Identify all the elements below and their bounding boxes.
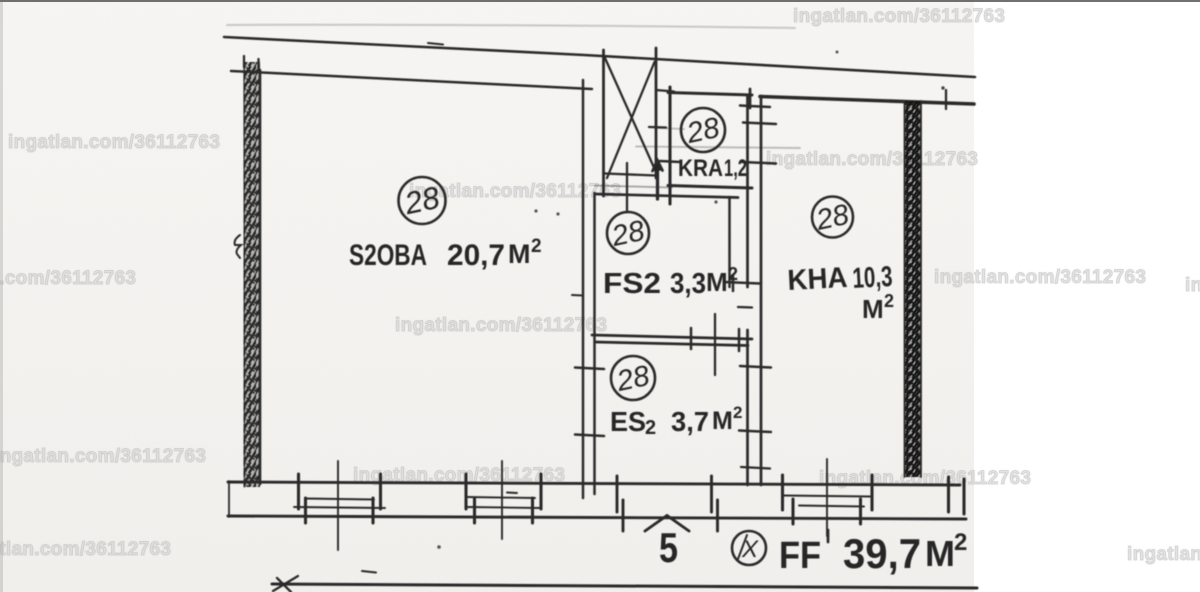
svg-text:2: 2: [954, 529, 967, 556]
svg-text:KRA: KRA: [678, 155, 723, 182]
dimension line through window 2: [501, 461, 503, 539]
svg-text:1,2: 1,2: [724, 155, 747, 182]
svg-text:39,7: 39,7: [843, 530, 921, 577]
KHA wall tick f: [739, 431, 771, 433]
top outline of building: [224, 37, 975, 77]
svg-text:5: 5: [659, 524, 678, 571]
window 1 inner line upper: [305, 499, 374, 500]
svg-text:M: M: [925, 533, 955, 574]
FS2 right edge inner line: [728, 197, 731, 287]
bottom wall left end tick: [228, 481, 230, 517]
svg-text:28: 28: [401, 180, 444, 222]
window 4 tick b: [962, 479, 965, 514]
svg-text:20,7: 20,7: [447, 239, 505, 272]
watermark left row 2: [8, 132, 220, 154]
svg-text:28: 28: [683, 112, 722, 150]
short dash above top outline: [428, 43, 443, 45]
watermark row 4 far right sliver: [1185, 275, 1200, 297]
svg-text:28: 28: [613, 360, 652, 398]
KRA left edge mid tick: [660, 161, 680, 162]
watermark row 6 center: [353, 465, 565, 487]
window 2 tick b: [473, 498, 476, 523]
window 1 tick d: [379, 474, 382, 509]
small hook mark on left wall: [235, 235, 241, 258]
window 3 tick c: [859, 499, 862, 524]
window 3 tick a: [781, 475, 784, 510]
stray dot g: [437, 545, 441, 549]
tick on hall wall upper: [575, 368, 604, 370]
watermark row 2 right: [766, 149, 978, 171]
window 2 tick d: [539, 474, 542, 509]
vertical tick below shaft: [626, 163, 628, 212]
svg-text:ES: ES: [610, 406, 646, 437]
window 1 tick b: [304, 498, 307, 523]
faint guide line through KRA: [636, 147, 800, 149]
window 4 tick a: [947, 477, 950, 512]
svg-text:KHA: KHA: [787, 262, 849, 297]
svg-text:M: M: [508, 239, 531, 269]
KHA wall tick e: [740, 366, 771, 368]
shaft X diagonal 2: [607, 62, 655, 178]
svg-text:28: 28: [608, 215, 647, 253]
tick crossing KHA top wall: [945, 90, 947, 109]
KHA left wall outer line lower: [746, 330, 749, 485]
svg-text:2: 2: [733, 403, 742, 422]
faint double of FS2 top: [595, 186, 672, 188]
KHA left wall outer line upper: [746, 96, 749, 287]
circled 28 KRA: [681, 108, 725, 152]
window 3 inner line lower: [799, 506, 864, 507]
dimension line through window 3: [826, 459, 828, 536]
entrance door tick d: [716, 500, 719, 531]
shaft box right vertical: [655, 48, 658, 178]
circled 28 ES2: [611, 356, 655, 400]
window 2 small dash: [507, 492, 517, 495]
cross mark second stroke: [277, 578, 291, 592]
tick crossing FS2/ES2 wall left: [690, 328, 693, 349]
shaft box left vertical: [602, 50, 605, 196]
watermark row 6 right: [819, 468, 1031, 490]
svg-text:28: 28: [813, 199, 852, 237]
svg-text:M: M: [706, 267, 728, 297]
tick on shaft right vertical: [649, 126, 666, 129]
KHA wall tick g: [741, 467, 770, 469]
dimension line through window 1: [337, 461, 339, 550]
window 2 inner line upper: [467, 497, 535, 498]
tick on hall wall lower: [575, 435, 604, 437]
KRA top-right corner tick: [749, 89, 752, 108]
shaft box bottom closing line: [605, 174, 656, 176]
tick crossing FS2/ES2 wall right: [738, 329, 741, 351]
apostrophe tick below window 3: [827, 530, 830, 542]
wall between SZOBA and hall (FS2/ES2): [582, 80, 585, 498]
KHA wall tick b: [743, 123, 776, 125]
entrance door tick b: [622, 500, 625, 531]
KHA top wall: [760, 97, 974, 105]
window 1 tick a: [297, 474, 300, 509]
stray dash f: [362, 571, 376, 573]
stray dot b: [556, 212, 559, 215]
watermark row 3 center: [409, 181, 621, 203]
wall between FS2 and ES2 lower line: [596, 342, 748, 346]
stray dot c: [836, 51, 839, 54]
watermark row 7 right clipped: [1127, 544, 1200, 566]
svg-text:2: 2: [531, 236, 542, 257]
watermark row 4 right: [934, 267, 1146, 289]
circled 28 SZOBA: [399, 177, 446, 224]
bottom wall outer line: [228, 482, 960, 485]
svg-text:2: 2: [645, 417, 656, 439]
door leaf line crossing FS2/ES2 wall: [714, 314, 716, 375]
faint pencil guide line top: [227, 25, 795, 28]
KHA wall tick c: [742, 162, 776, 164]
window 3 inner line upper: [784, 496, 870, 497]
hall inner box top edge (FS2): [595, 194, 738, 198]
circled X floor mark: [732, 531, 766, 565]
inner parallel wall line of hall: [593, 193, 596, 494]
top wall of SZOBA: [231, 71, 592, 89]
ground line at very bottom: [272, 584, 977, 588]
KRA box left edge: [668, 87, 671, 204]
window 2 tick c: [531, 498, 534, 523]
svg-text:10,3: 10,3: [852, 261, 894, 295]
KRA box bottom edge: [668, 186, 752, 189]
svg-text:X: X: [741, 536, 759, 563]
left wall hatched column: [244, 56, 261, 487]
entrance caret marker: [645, 516, 689, 532]
stair arrow shaft: [656, 161, 659, 199]
cross mark at left end of ground line: [273, 576, 298, 591]
svg-text:2: 2: [884, 291, 894, 311]
circled 28 FS2: [607, 212, 649, 254]
wall between FS2 and ES2 upper line: [592, 335, 752, 339]
right wall hatched column: [904, 101, 922, 477]
KRA box top edge: [668, 93, 752, 96]
svg-text:3,3: 3,3: [670, 268, 706, 300]
stray dot d: [941, 86, 944, 89]
circled 28 KHA: [812, 197, 853, 238]
watermark row 7 left clipped: [0, 539, 171, 561]
svg-text:FS2: FS2: [603, 268, 661, 300]
stray dot e: [714, 200, 717, 203]
watermark row 1: [793, 6, 1005, 28]
svg-text:FF: FF: [779, 535, 821, 577]
entrance door tick a: [616, 476, 619, 512]
svg-text:S2OBA: S2OBA: [349, 239, 427, 272]
dash connecting shaft to KRA: [656, 90, 674, 92]
watermark row 6 left: [0, 446, 206, 468]
svg-text:M: M: [862, 294, 884, 324]
small dash on szoba wall: [572, 294, 583, 297]
shaft X diagonal 1: [605, 58, 656, 172]
stair arrow head: [653, 160, 663, 171]
svg-text:2: 2: [728, 264, 738, 284]
window 3 tick d: [870, 475, 873, 510]
window 1 inner line lower: [294, 507, 385, 508]
KHA wall tick a: [740, 106, 770, 108]
entrance door tick c: [710, 476, 713, 512]
watermark row 5 center: [395, 315, 607, 337]
KHA left wall inner line: [760, 96, 763, 485]
left scan edge shade: [0, 2, 3, 592]
window 3 tick b: [791, 499, 794, 524]
faint dash shaft to circle: [657, 128, 684, 129]
svg-text:M: M: [712, 407, 733, 435]
FS2 dimension tick horizontal: [724, 282, 760, 284]
bottom wall inner line: [228, 516, 966, 519]
dark scan edge at top: [0, 0, 1200, 2]
window 2 tick a: [464, 474, 467, 509]
window 2 inner line lower: [466, 507, 541, 508]
FS2 dimension tick vertical: [732, 275, 735, 291]
svg-text:3,7: 3,7: [671, 406, 709, 437]
KHA wall dash d: [738, 306, 752, 309]
window 1 tick c: [371, 498, 374, 523]
watermark row 4 left clipped: [0, 268, 136, 290]
stray dot a: [534, 209, 537, 212]
